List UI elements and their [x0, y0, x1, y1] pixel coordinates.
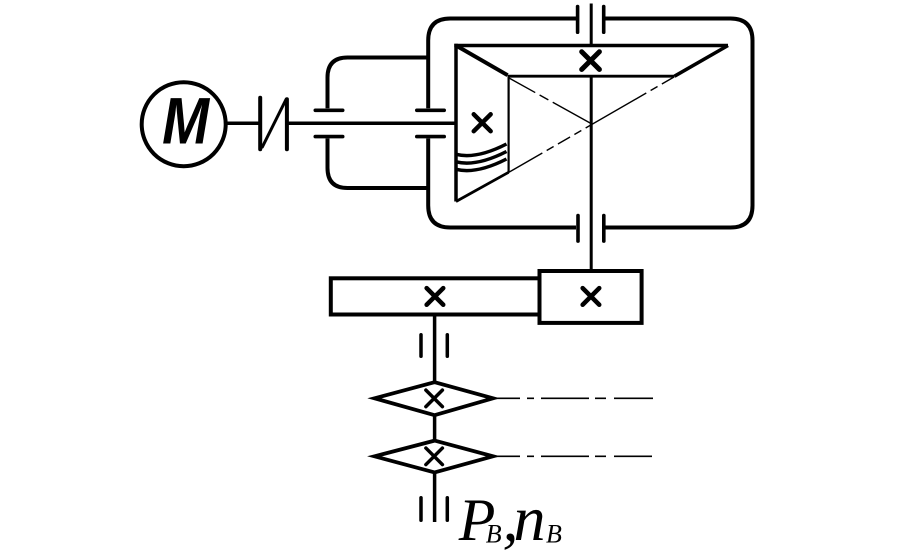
elastic coupling	[260, 98, 287, 150]
vertical output shaft	[590, 78, 593, 271]
diamond 1 axis dash-dot	[494, 397, 653, 399]
svg-text:M: M	[162, 84, 211, 158]
lower vertical shaft, upper segment	[433, 315, 437, 383]
pinion tooth arcs	[456, 144, 507, 171]
coupling ticks upper	[421, 335, 447, 356]
bearing, input shaft, box left wall	[315, 110, 342, 136]
shaft: motor to coupling	[226, 122, 260, 126]
vertical shaft, top stub	[590, 4, 593, 46]
right rect x mark	[583, 288, 600, 305]
pitch line 2 dash-dot	[509, 77, 675, 173]
gear rect, intermediate (long)	[331, 278, 540, 314]
bevel pinion Z1	[456, 44, 509, 202]
svg-text:B: B	[546, 520, 562, 549]
gearbox housing	[428, 19, 752, 228]
shaft between diamonds	[433, 415, 437, 440]
diamond 1 x mark	[426, 390, 443, 407]
pinion x mark	[474, 114, 491, 131]
coupling ticks lower	[421, 498, 447, 520]
motor M	[142, 82, 226, 166]
gear rect, on vertical shaft (right)	[540, 271, 642, 323]
bevel gear Z2 crown	[454, 46, 728, 77]
long rect x mark	[427, 288, 444, 305]
belt housing box	[328, 58, 429, 189]
svg-text:B: B	[486, 520, 502, 549]
diamond 2 axis dash-dot	[494, 455, 652, 457]
bearing, output shaft, housing top wall	[578, 7, 604, 33]
bevel gear diamond 1	[375, 382, 494, 415]
crown x mark	[582, 52, 600, 70]
bevel gear diamond 2	[375, 441, 494, 473]
lower vertical shaft, output segment	[433, 472, 437, 522]
bearing, output shaft, housing bottom wall	[578, 216, 604, 242]
input shaft: coupling to pinion	[287, 122, 456, 126]
bearing, input shaft, housing left wall	[417, 110, 444, 136]
svg-text:n: n	[514, 483, 546, 554]
diamond 2 x mark	[426, 448, 443, 465]
label PB,nB	[458, 483, 562, 554]
pitch line 1 dash-dot	[509, 78, 591, 124]
